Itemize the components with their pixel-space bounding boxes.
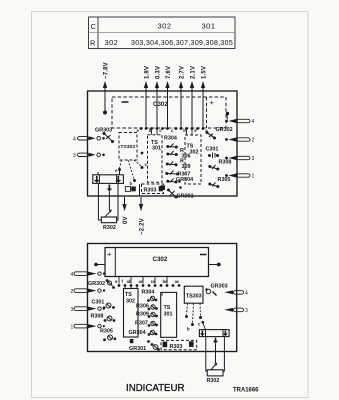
svg-text:R: R — [90, 39, 96, 48]
node pad between TS303 and TS301 — [141, 152, 144, 155]
test voltage arrow 2.7V — [180, 85, 182, 128]
svg-text:R302: R302 — [103, 225, 116, 231]
svg-text:GR302: GR302 — [216, 127, 233, 133]
square pad below TS301 — [161, 185, 166, 190]
svg-text:309: 309 — [182, 164, 191, 170]
node pad right of C302 — [226, 112, 229, 115]
potentiometer R302 body outline (bottom board) — [199, 330, 229, 337]
svg-text:0.3V: 0.3V — [156, 66, 162, 79]
transistor TS302 (dashed outline) — [185, 135, 201, 184]
connector 3 (right) — [229, 156, 238, 160]
wire with -2.2V arrow — [140, 197, 142, 206]
wire pot wiper (bottom) — [215, 344, 217, 363]
svg-text:TS303: TS303 — [186, 294, 202, 300]
svg-text:R305: R305 — [100, 329, 113, 335]
transistor TS301 (dashed outline) — [148, 135, 163, 183]
transistor TS302 (solid outline) — [124, 289, 139, 338]
test voltage arrow 1.5V — [202, 85, 204, 128]
svg-text:b: b — [130, 181, 133, 186]
board outline — [88, 244, 237, 352]
svg-text:3: 3 — [245, 308, 248, 314]
svg-text:1: 1 — [71, 325, 74, 331]
wire stubs into TS302/TS303 — [125, 287, 137, 289]
svg-text:302: 302 — [126, 299, 135, 305]
wire near R303 — [139, 184, 141, 196]
wire pot right — [117, 183, 118, 220]
resistor R303 (dashed box) — [142, 184, 164, 194]
svg-text:3: 3 — [71, 307, 74, 313]
svg-text:R303: R303 — [144, 188, 157, 194]
svg-text:be: be — [163, 279, 169, 284]
solder pad row under C302 — [119, 277, 167, 284]
svg-text:C: C — [91, 22, 97, 31]
svg-text:R308: R308 — [219, 160, 232, 166]
test voltage arrow 0.3V — [156, 85, 158, 128]
svg-text:R308: R308 — [91, 314, 104, 320]
capacitor C302 outline (solid) — [105, 248, 209, 277]
svg-text:TS: TS — [125, 292, 132, 298]
small component and pad left of R303 — [125, 187, 130, 192]
wire pot right (bottom) — [223, 337, 224, 371]
svg-text:7.6V: 7.6V — [166, 66, 172, 79]
svg-text:C302: C302 — [153, 256, 168, 263]
svg-text:1.5V: 1.5V — [202, 66, 208, 79]
svg-text:303,304,306,307,309,308,305: 303,304,306,307,309,308,305 — [131, 40, 233, 47]
svg-text:INDICATEUR: INDICATEUR — [126, 383, 185, 394]
svg-text:1.9V: 1.9V — [145, 66, 151, 79]
svg-text:301: 301 — [202, 22, 216, 31]
svg-text:1: 1 — [252, 174, 255, 180]
svg-text:GR304: GR304 — [129, 330, 146, 336]
test voltage arrow -7.8V — [104, 85, 106, 112]
svg-text:2.1V: 2.1V — [191, 66, 197, 79]
svg-text:4: 4 — [245, 291, 248, 297]
svg-text:0V: 0V — [123, 216, 129, 224]
svg-text:302: 302 — [105, 38, 119, 47]
pot pin arrows — [94, 176, 121, 192]
svg-text:b: b — [183, 128, 186, 133]
diode GR301 — [169, 191, 176, 197]
svg-text:GR301: GR301 — [129, 346, 146, 352]
TS303 legs — [120, 160, 142, 179]
connector 2 (right) — [229, 137, 238, 141]
potentiometer R302 (external) — [101, 217, 116, 223]
svg-text:C301: C301 — [92, 300, 105, 306]
svg-text:ab: ab — [127, 279, 132, 284]
square pad under TS302 — [130, 339, 134, 343]
svg-text:ac: ac — [175, 279, 180, 284]
wire stub from C302 pad to connector 4 — [226, 115, 228, 120]
connector 3 (right, bottom board) — [224, 308, 233, 312]
svg-text:R302: R302 — [207, 378, 220, 384]
svg-text:ce: ce — [151, 279, 156, 284]
svg-text:3: 3 — [73, 153, 76, 159]
svg-text:C302: C302 — [153, 101, 168, 108]
wire stubs into TS301/TS302 — [152, 129, 193, 135]
C302 minus mark — [200, 254, 207, 256]
svg-text:+: + — [210, 98, 215, 107]
board outline — [88, 91, 238, 196]
svg-text:4: 4 — [73, 137, 76, 143]
svg-text:b: b — [187, 327, 190, 332]
svg-text:R305: R305 — [218, 177, 231, 183]
svg-text:2: 2 — [71, 289, 74, 295]
svg-text:R304: R304 — [164, 136, 177, 142]
node pads near TS302 bottom — [178, 180, 181, 183]
svg-text:TRA1666: TRA1666 — [233, 387, 259, 394]
connector 4 (right, bottom board) — [224, 290, 233, 294]
svg-text:2.7V: 2.7V — [180, 66, 186, 79]
svg-text:+: + — [107, 250, 112, 259]
wire + pad right of C302 — [209, 264, 218, 266]
svg-text:4: 4 — [252, 119, 255, 125]
test voltage arrow 2.1V — [191, 85, 193, 128]
svg-text:GR302: GR302 — [88, 281, 105, 287]
svg-text:301: 301 — [164, 312, 173, 318]
wire node c to pot — [203, 324, 206, 330]
transistor TS303 (solid outline) — [184, 286, 203, 303]
svg-text:GR303: GR303 — [211, 284, 228, 290]
wire pot wiper — [108, 192, 110, 211]
transistor TS303 (dashed outline) — [119, 133, 137, 161]
svg-text:302: 302 — [190, 150, 199, 156]
svg-text:−7.8V: −7.8V — [104, 62, 110, 79]
TS303 legs — [187, 303, 201, 322]
capacitor C302 outline (dashed) — [112, 97, 226, 128]
svg-text:3: 3 — [252, 156, 255, 162]
svg-text:2: 2 — [252, 138, 255, 144]
svg-text:−2.2V: −2.2V — [139, 218, 145, 235]
svg-text:R304: R304 — [142, 290, 155, 296]
wire pot left (bottom) — [206, 337, 207, 371]
svg-text:R306: R306 — [136, 304, 149, 310]
C302 minus mark — [122, 101, 129, 103]
svg-text:R309: R309 — [136, 312, 149, 318]
potentiometer R302 (external, bottom) — [207, 370, 223, 376]
svg-text:GR301: GR301 — [177, 194, 194, 200]
svg-text:TS: TS — [164, 305, 171, 311]
svg-text:4: 4 — [71, 272, 74, 278]
wire with 0V arrow — [124, 197, 126, 206]
svg-text:R307: R307 — [135, 321, 148, 327]
svg-text:C301: C301 — [206, 147, 219, 153]
wire + pad left of C302 — [97, 264, 106, 266]
test voltage arrow 7.6V — [167, 85, 169, 128]
svg-text:ac: ac — [139, 279, 144, 284]
stub wires above pot — [97, 172, 99, 175]
connector 1 (right) — [229, 173, 238, 177]
connector 4 (right) — [229, 119, 238, 123]
wire pot left — [98, 183, 101, 220]
svg-text:TS303: TS303 — [121, 144, 136, 150]
resistor R303 (dashed box) — [161, 340, 197, 349]
svg-text:R303: R303 — [170, 344, 183, 350]
svg-text:301: 301 — [152, 146, 161, 152]
transistor TS301 (solid outline) — [161, 292, 177, 337]
svg-text:302: 302 — [158, 22, 172, 31]
test voltage arrow 1.9V — [145, 85, 147, 128]
solder pad row under C302 — [140, 127, 205, 130]
potentiometer R302 body outline — [93, 175, 124, 184]
